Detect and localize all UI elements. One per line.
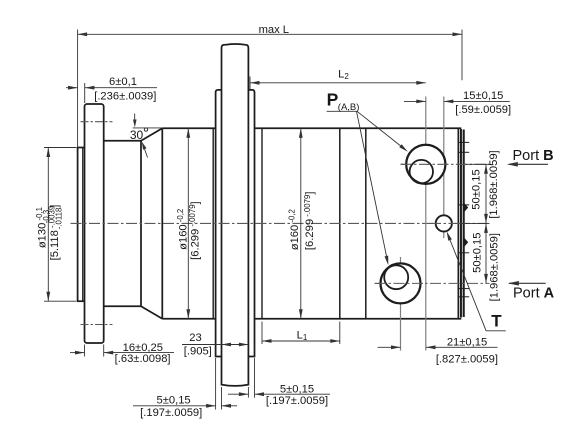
section joint line 2 [365, 128, 367, 319]
port B outer circle [406, 145, 445, 184]
port A horizontal centerline [375, 282, 490, 284]
bottom chamfer [141, 306, 162, 319]
neck section top edge [104, 140, 141, 142]
T port vertical centerline [443, 97, 445, 239]
dim dia 130 [44, 147, 77, 149]
T drain port circle [436, 215, 452, 231]
svg-text:max L: max L [259, 24, 289, 36]
neck right edge [140, 141, 142, 307]
port A outer circle [381, 263, 421, 303]
dim dia 160 left [187, 128, 189, 319]
dim L1 [261, 322, 263, 345]
dim 5 +/-0,15 left (rear flange to body) [215, 358, 217, 410]
port B centerline redraw [401, 163, 448, 165]
svg-text:6±0,1: 6±0,1 [109, 76, 137, 88]
mounting flange disc [85, 104, 104, 343]
body top edge left section [162, 127, 215, 129]
bolt circle mark top [81, 121, 113, 123]
chamfer edge line [161, 128, 163, 319]
svg-text:23: 23 [189, 332, 201, 344]
port B vertical centerline [425, 97, 427, 351]
port A inner circle [384, 265, 408, 289]
svg-text:50±0,15: 50±0,15 [471, 169, 483, 209]
leader to port A [357, 111, 388, 259]
dim 50 +/-0,15 upper and lower [465, 163, 490, 165]
serration teeth [464, 203, 468, 213]
body top edge right section [255, 127, 462, 129]
body bottom edge right section [255, 318, 462, 320]
30 deg chamfer callout [133, 127, 163, 129]
svg-text:30: 30 [130, 128, 144, 142]
svg-text:[.59±.0059]: [.59±.0059] [455, 104, 511, 116]
svg-text:50±0,15: 50±0,15 [472, 233, 484, 273]
svg-text:15±0,15: 15±0,15 [463, 90, 503, 102]
dim 5 +/-0,15 right (front to rear flange) [247, 387, 249, 398]
rear flange plate (wider, short) [216, 90, 222, 357]
serrated end face line [457, 128, 459, 319]
dim L2 [249, 77, 251, 90]
pilot bottom edge [77, 300, 85, 302]
svg-text:P: P [327, 89, 339, 109]
svg-text:Port B: Port B [513, 148, 554, 164]
dim 23 front flange thickness [182, 344, 248, 346]
body edge at flange left [212, 128, 214, 319]
serrated band (gerotor stack) [460, 129, 462, 318]
neck section bottom edge [104, 305, 141, 307]
svg-text:[.827±.0059]: [.827±.0059] [436, 354, 498, 366]
dim dia 160 right [300, 128, 302, 319]
svg-text:16±0,25: 16±0,25 [123, 342, 163, 354]
body edge at flange right [261, 128, 263, 319]
svg-text:[.197±.0059]: [.197±.0059] [266, 395, 328, 407]
svg-text:[.63±.0098]: [.63±.0098] [115, 353, 171, 365]
centerline over T [430, 222, 460, 224]
dim 6 +/-0,1 [84, 83, 86, 103]
bolt circle mark bottom [81, 324, 113, 326]
port A centerline redraw over circles [375, 282, 427, 284]
port B horizontal centerline [401, 163, 490, 165]
svg-text:[.236±.0039]: [.236±.0039] [94, 91, 156, 103]
dim 16 +/-0,25 flange thickness [84, 345, 86, 357]
svg-text:[.905]: [.905] [184, 346, 212, 358]
pilot inner chamfer line [82, 148, 84, 301]
port B inner circle [410, 160, 433, 183]
svg-text:21±0,15: 21±0,15 [447, 337, 487, 349]
svg-text:[1.968±.0059]: [1.968±.0059] [488, 150, 500, 218]
svg-text:[.197±.0059]: [.197±.0059] [140, 407, 202, 419]
port A vertical centerline [400, 257, 402, 351]
body bottom edge left section [162, 318, 215, 320]
main centerline [71, 222, 488, 224]
front wheel flange (tall, 23mm) [222, 44, 249, 386]
dim 21 +/-0,15 [378, 346, 401, 348]
dim max L [77, 30, 79, 148]
section joint line 1 [339, 128, 341, 319]
svg-text:5±0,15: 5±0,15 [157, 394, 191, 406]
svg-text:[1.968±.0059]: [1.968±.0059] [489, 233, 501, 301]
top chamfer 30deg [141, 128, 162, 141]
svg-text:T: T [491, 312, 502, 331]
svg-text:Port A: Port A [513, 285, 555, 301]
dim 15 +/-0,15 [404, 100, 426, 102]
svg-text:5±0,15: 5±0,15 [280, 383, 314, 395]
serration ticks [458, 141, 469, 143]
shaft pilot face [77, 148, 79, 302]
pilot top edge [77, 147, 85, 149]
leader to port B [357, 111, 402, 146]
